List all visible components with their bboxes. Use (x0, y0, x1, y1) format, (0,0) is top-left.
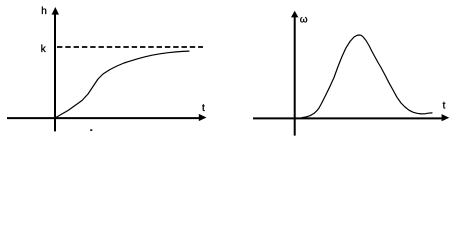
svg-text:ω: ω (300, 14, 308, 25)
right graph x-axis (t axis) (253, 117, 443, 119)
left graph y-axis (h axis) (54, 12, 56, 131)
right graph y-axis arrowhead (291, 11, 298, 18)
svg-text:t: t (202, 103, 205, 114)
svg-text:k: k (41, 44, 47, 55)
bell curve omega(t) (302, 35, 432, 118)
svg-text:t: t (443, 101, 446, 112)
dashed level line k (57, 46, 203, 48)
sigmoid curve h(t) (55, 51, 189, 118)
svg-text:h: h (41, 6, 47, 17)
left graph x-axis (t axis) (7, 117, 200, 119)
left graph x-axis arrowhead (199, 114, 207, 121)
right graph y-axis (omega axis) (294, 15, 296, 136)
stray dot under left axis (90, 129, 92, 131)
right graph x-axis arrowhead (442, 114, 450, 121)
left graph y-axis arrowhead (52, 7, 59, 15)
